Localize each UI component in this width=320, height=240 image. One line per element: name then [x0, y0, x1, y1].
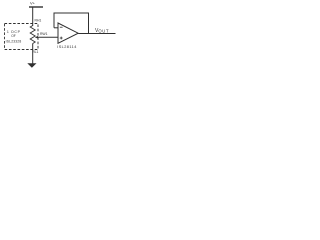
supply rail V+ — [29, 1, 43, 8]
ground arrow — [27, 63, 36, 67]
inverting input stub — [54, 27, 58, 29]
dashed box text — [6, 30, 22, 44]
svg-text:RH1: RH1 — [35, 18, 42, 22]
dashed box: 1 DCP of ISL23328 — [5, 24, 39, 50]
svg-text:VOUT: VOUT — [95, 28, 109, 34]
feedback wire — [54, 13, 89, 34]
wire pot bottom to ground — [32, 44, 34, 65]
potentiometer R (zigzag) — [30, 26, 35, 44]
svg-text:ISL28114: ISL28114 — [57, 45, 77, 49]
wire V+ to potentiometer top — [32, 7, 34, 26]
svg-text:RW1: RW1 — [40, 32, 48, 36]
svg-text:V+: V+ — [30, 1, 36, 6]
output wire — [78, 33, 115, 35]
wiper arrow — [35, 36, 58, 39]
svg-text:OF: OF — [11, 34, 16, 38]
svg-text:ISL23328: ISL23328 — [6, 40, 22, 44]
op-amp U1 ISL28114 — [57, 23, 78, 49]
